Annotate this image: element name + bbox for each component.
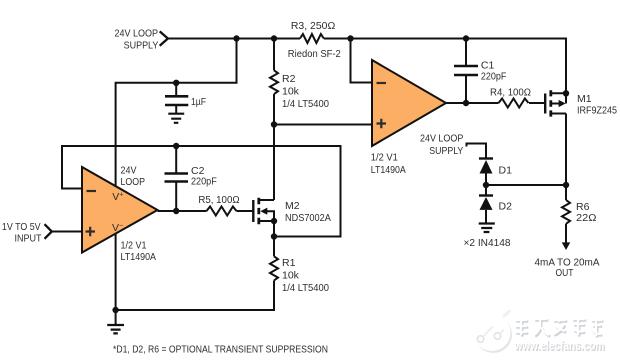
- svg-text:LOOP: LOOP: [121, 176, 146, 188]
- resistor R4: [499, 99, 529, 108]
- capacitor 1uF: [165, 83, 188, 114]
- svg-text:SUPPLY: SUPPLY: [124, 40, 159, 52]
- svg-text:220pF: 220pF: [191, 176, 217, 188]
- transistor M2 NDS7002A (N-channel MOSFET): [253, 125, 274, 224]
- svg-text:*D1, D2, R6 = OPTIONAL TRANSIE: *D1, D2, R6 = OPTIONAL TRANSIENT SUPPRES…: [113, 345, 328, 356]
- resistor R5: [207, 207, 237, 216]
- node: junction R2 bottom / plus input wire: [271, 121, 277, 127]
- svg-text:R2: R2: [282, 73, 296, 85]
- svg-text:1µF: 1µF: [191, 96, 206, 108]
- svg-text:1/2 V1: 1/2 V1: [371, 152, 398, 164]
- svg-text:1/4 LT5400: 1/4 LT5400: [282, 282, 329, 294]
- wire: diode clamp supply feed: [467, 144, 487, 159]
- wire: top 24V loop supply rail: [167, 39, 566, 94]
- ground: below D2: [479, 224, 495, 233]
- capacitor C2: [165, 146, 189, 211]
- wire: R6 to output arrow: [565, 224, 567, 244]
- wire: clamp node to output rail: [486, 184, 566, 186]
- svg-text:V−: V−: [112, 222, 123, 234]
- svg-text:LT1490A: LT1490A: [121, 251, 157, 263]
- node: junction V- / R1 return / ground: [112, 307, 118, 313]
- svg-text:24V LOOP: 24V LOOP: [420, 133, 463, 145]
- node: junction U2 output / C1 bottom: [463, 100, 469, 106]
- ground: below 1uF cap: [168, 114, 184, 123]
- ground: main (bottom left): [107, 325, 124, 333]
- pin label: U1 inverting minus sign: [87, 190, 97, 192]
- svg-text:10k: 10k: [282, 270, 300, 282]
- node: junction U1 output / C2 bottom: [173, 208, 179, 214]
- op-amp U1 (left 1/2 V1 LT1490A): [82, 167, 158, 253]
- svg-text:OUT: OUT: [556, 267, 574, 279]
- node: junction top rail / C1: [463, 35, 469, 41]
- diode D1: [479, 159, 493, 186]
- node: junction top rail right of R3: [347, 35, 353, 41]
- wire: U1 minus input feedback loop top: [62, 146, 341, 237]
- svg-text:Riedon SF-2: Riedon SF-2: [288, 48, 341, 60]
- node: junction D1/D2: [483, 182, 489, 188]
- svg-text:×2 IN4148: ×2 IN4148: [464, 237, 511, 249]
- svg-text:10k: 10k: [282, 86, 300, 98]
- svg-text:1V TO 5V: 1V TO 5V: [2, 221, 41, 233]
- resistor R3 (top rail): [300, 34, 324, 43]
- node: junction top rail / supply branch: [233, 35, 239, 41]
- svg-text:R5, 100Ω: R5, 100Ω: [198, 194, 239, 206]
- wire: R3 right side down to U2 inverting input: [351, 39, 373, 83]
- svg-text:IRF9Z245: IRF9Z245: [577, 104, 617, 116]
- wire: R2 bottom node to U2 non-inverting input: [274, 124, 372, 126]
- svg-text:M2: M2: [285, 200, 300, 212]
- node: junction supply branch / 1uF cap: [173, 80, 179, 86]
- connector chevron: input: [45, 224, 52, 239]
- watermark: chinese text shadow layer: [516, 319, 603, 338]
- svg-text:INPUT: INPUT: [15, 233, 43, 245]
- svg-text:R1: R1: [282, 257, 296, 269]
- transistor M1 IRF9Z245 (P-channel MOSFET): [545, 90, 566, 116]
- resistor R2 (vertical, in drain branch): [270, 39, 278, 201]
- svg-text:1/4 LT5400: 1/4 LT5400: [282, 98, 329, 110]
- node: junction M2 source/body: [271, 218, 277, 224]
- wire: input to U1 plus: [52, 231, 82, 233]
- svg-text:D1: D1: [499, 165, 513, 177]
- wire: U2 output to R4: [446, 102, 545, 104]
- wire: U1 output to R5: [158, 210, 254, 212]
- node: junction feedback / C2 top: [173, 143, 179, 149]
- connector arrow: 4mA-20mA output: [562, 242, 571, 250]
- node: junction top rail / R2: [271, 35, 277, 41]
- watermark: chinese text 电子发烧友: [515, 317, 602, 336]
- resistor R6 (vertical): [562, 200, 570, 224]
- svg-text:D2: D2: [499, 201, 513, 213]
- svg-text:22Ω: 22Ω: [576, 212, 597, 224]
- svg-text:R4, 100Ω: R4, 100Ω: [490, 86, 531, 98]
- svg-text:24V: 24V: [121, 164, 137, 176]
- connector chevron: 24V loop supply input: [160, 31, 168, 45]
- svg-text:SUPPLY: SUPPLY: [429, 145, 463, 157]
- wire: U1 V- pin down to ground node: [115, 234, 117, 326]
- svg-text:1/2 V1: 1/2 V1: [121, 240, 147, 252]
- node: junction output rail / clamp: [563, 182, 569, 188]
- watermark: elecfans logo: [474, 310, 513, 354]
- node: junction M2 source / feedback return: [271, 233, 277, 239]
- capacitor C1: [454, 39, 478, 104]
- svg-text:R3, 250Ω: R3, 250Ω: [291, 20, 336, 32]
- svg-text:NDS7002A: NDS7002A: [285, 212, 331, 224]
- pin label: U2 inverting minus sign: [377, 82, 387, 84]
- wire: M1 drain down to R6: [565, 114, 567, 201]
- pin label: U1 non-inverting plus sign: [86, 227, 96, 236]
- wire: supply branch down-left to left op-amp V+: [116, 39, 237, 187]
- svg-text:LT1490A: LT1490A: [371, 164, 406, 176]
- pin label: U2 non-inverting plus sign: [377, 119, 387, 128]
- svg-text:220pF: 220pF: [481, 70, 507, 82]
- resistor R1 (vertical): [116, 221, 278, 310]
- diode D2: [479, 185, 493, 224]
- svg-text:www.elecfans.com: www.elecfans.com: [514, 337, 605, 352]
- svg-text:24V LOOP: 24V LOOP: [115, 28, 159, 40]
- op-amp U2 (right 1/2 V1 LT1490A): [372, 60, 446, 146]
- node: junction M1 source/body: [563, 90, 569, 96]
